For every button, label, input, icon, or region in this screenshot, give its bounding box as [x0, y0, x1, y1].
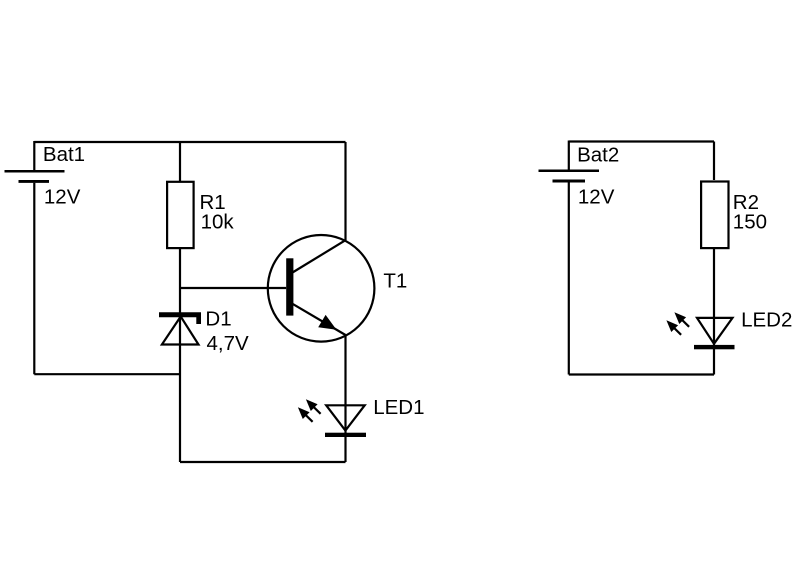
wire bottom rail left circuit [180, 461, 346, 463]
resistor R1 body [167, 182, 194, 248]
svg-text:LED1: LED1 [373, 396, 424, 419]
LED1 triangle [326, 405, 365, 430]
wire bottom rail right circuit [569, 373, 714, 375]
zener diode D1 cathode bar fill [159, 312, 201, 324]
wire emitter lead to LED1 [344, 335, 346, 462]
svg-text:12V: 12V [578, 185, 615, 208]
wire battery Bat2 top lead [568, 141, 570, 171]
transistor T1 base bar [286, 258, 293, 315]
battery Bat1 negative plate [19, 180, 50, 183]
transistor T1 emitter arrowhead [318, 315, 336, 330]
wire Bat2 top rail right circuit [569, 140, 714, 142]
resistor R2 body [701, 182, 728, 249]
svg-text:12V: 12V [44, 185, 81, 208]
svg-text:Bat1: Bat1 [43, 143, 85, 166]
svg-text:Bat2: Bat2 [577, 143, 619, 166]
transistor T1 emitter line [293, 304, 346, 335]
wire battery Bat1 bottom lead [33, 183, 35, 374]
wire collector lead [344, 142, 346, 240]
LED1 light arrows [298, 399, 321, 422]
svg-text:150: 150 [733, 211, 767, 234]
transistor T1 collector line [293, 240, 346, 272]
battery Bat1 positive plate [5, 170, 65, 173]
svg-text:LED2: LED2 [741, 309, 792, 332]
svg-text:10k: 10k [201, 211, 235, 234]
wire R2 bottom lead to LED2 [713, 249, 715, 375]
LED1 cathode bar [325, 433, 366, 437]
svg-text:4,7V: 4,7V [207, 332, 249, 355]
wire R1 bottom through D1 to bottom rail [179, 249, 181, 462]
LED2 light arrows [666, 312, 689, 335]
zener diode D1 triangle [162, 317, 199, 345]
svg-text:T1: T1 [383, 269, 407, 292]
LED2 triangle [697, 318, 733, 344]
wire battery Bat2 bottom lead [568, 183, 570, 375]
wire battery Bat1 top lead [33, 141, 35, 170]
wire base node to transistor [180, 287, 286, 289]
battery Bat2 negative plate [553, 180, 586, 183]
wire R2 top lead [713, 142, 715, 181]
LED2 cathode bar [694, 345, 735, 349]
battery Bat2 positive plate [539, 169, 600, 172]
wire top rail left circuit [34, 141, 345, 143]
svg-text:D1: D1 [205, 307, 231, 330]
wire R1 top lead [179, 142, 181, 181]
transistor T1 circle [268, 235, 375, 342]
wire battery Bat1 to node at D1 bottom [34, 373, 180, 375]
